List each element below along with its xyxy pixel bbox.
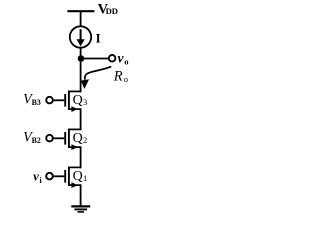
transistor Q1	[53, 167, 87, 188]
svg-text:Q: Q	[73, 93, 83, 108]
svg-text:Q: Q	[73, 169, 83, 184]
svg-text:o: o	[124, 74, 128, 84]
node junction dot	[78, 55, 85, 62]
vi label	[33, 170, 42, 185]
Q1 label	[73, 169, 88, 184]
Q2 gate lead	[53, 137, 64, 139]
Q2 source arrow	[71, 144, 78, 150]
VB2 gate terminal	[46, 135, 53, 142]
svg-text:3: 3	[83, 97, 87, 107]
svg-text:B3: B3	[32, 98, 41, 107]
svg-text:I: I	[96, 32, 101, 46]
Q1 gate bar	[64, 170, 66, 183]
wire node to Q3 drain	[80, 59, 82, 93]
Q1 channel bar	[68, 167, 70, 186]
Q2 gate bar	[64, 132, 66, 145]
current source I	[70, 26, 91, 47]
svg-text:Q: Q	[73, 131, 83, 146]
transistor Q2	[53, 129, 87, 150]
wire Q3 source to Q2 drain	[80, 109, 82, 130]
Q3 label	[73, 93, 88, 108]
Q1 gate lead	[53, 175, 64, 177]
Q2 channel bar	[68, 129, 70, 148]
svg-text:DD: DD	[106, 6, 118, 16]
svg-text:R: R	[113, 69, 123, 85]
wire VDD bar to current source	[80, 11, 82, 26]
VDD supply bar	[67, 10, 94, 12]
svg-text:v: v	[33, 170, 39, 184]
VB3 label	[23, 92, 41, 108]
wire node to vo terminal	[81, 58, 109, 60]
Q3 source arrow	[71, 106, 78, 112]
VB3 gate terminal	[46, 97, 53, 104]
ground	[71, 206, 90, 212]
wire Q1 source to ground	[80, 185, 82, 206]
terminal vo	[109, 55, 116, 62]
Q2 drain leg	[68, 128, 81, 130]
vi gate terminal	[46, 173, 53, 180]
svg-text:1: 1	[83, 173, 87, 183]
Q3 gate bar	[64, 94, 66, 107]
Q1 source leg	[68, 184, 81, 186]
svg-text:2: 2	[83, 135, 87, 145]
Q2 label	[73, 131, 88, 146]
I value label	[96, 32, 101, 46]
Q3 channel bar	[68, 91, 70, 110]
Q1 source arrow	[71, 182, 78, 188]
Q1 drain leg	[68, 166, 81, 168]
VDD label	[98, 1, 118, 17]
svg-text:o: o	[124, 57, 128, 67]
Ro label	[113, 69, 128, 85]
Q3 gate lead	[53, 99, 64, 101]
Q3 drain leg	[68, 90, 81, 92]
transistor Q3	[53, 91, 87, 112]
Ro curved arrow	[85, 67, 112, 80]
VB2 label	[23, 130, 41, 146]
vo label	[118, 50, 129, 66]
Q3 source leg	[68, 108, 81, 110]
svg-text:B2: B2	[32, 136, 41, 145]
wire current source to output node	[80, 48, 82, 59]
wire Q2 source to Q1 drain	[80, 147, 82, 168]
Q2 source leg	[68, 146, 81, 148]
